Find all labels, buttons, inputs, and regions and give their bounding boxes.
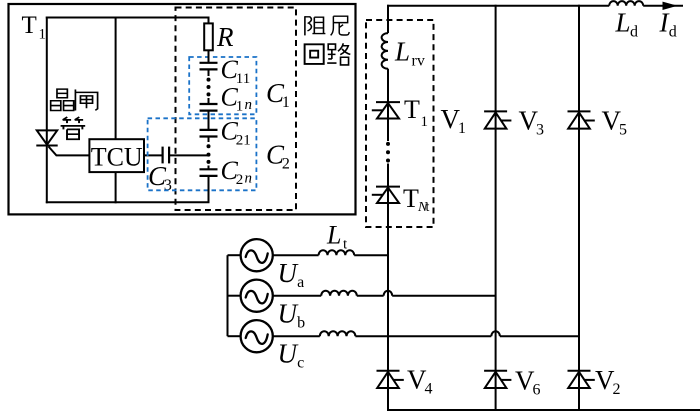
svg-text:1: 1: [458, 120, 466, 137]
svg-text:TCU: TCU: [91, 143, 143, 172]
svg-text:6: 6: [532, 381, 540, 398]
svg-text:U: U: [278, 339, 299, 369]
svg-text:c: c: [297, 354, 304, 371]
svg-text:T: T: [403, 184, 419, 213]
svg-text:n: n: [245, 171, 253, 187]
svg-text:rv: rv: [412, 52, 425, 69]
svg-text:1: 1: [236, 98, 244, 114]
svg-text:T: T: [404, 95, 420, 124]
svg-text:3: 3: [164, 177, 172, 194]
svg-text:R: R: [216, 22, 234, 52]
svg-text:1: 1: [421, 114, 429, 130]
svg-text:L: L: [326, 221, 341, 250]
svg-text:n: n: [245, 97, 253, 113]
svg-text:L: L: [615, 8, 631, 38]
svg-text:U: U: [278, 299, 299, 329]
svg-text:2: 2: [282, 155, 290, 172]
svg-text:U: U: [278, 258, 299, 288]
svg-text:t: t: [426, 200, 430, 215]
svg-text:L: L: [394, 37, 410, 67]
svg-text:4: 4: [424, 380, 432, 397]
svg-text:5: 5: [619, 121, 627, 138]
svg-text:11: 11: [236, 71, 250, 87]
svg-text:21: 21: [236, 132, 251, 148]
svg-text:3: 3: [536, 121, 544, 138]
svg-text:d: d: [669, 23, 677, 40]
svg-text:2: 2: [236, 172, 244, 188]
svg-text:d: d: [630, 23, 638, 40]
svg-text:2: 2: [612, 381, 620, 398]
svg-text:T: T: [22, 12, 37, 39]
svg-text:b: b: [297, 314, 305, 331]
svg-text:1: 1: [39, 27, 47, 43]
svg-text:1: 1: [282, 94, 290, 111]
svg-text:a: a: [297, 274, 304, 291]
